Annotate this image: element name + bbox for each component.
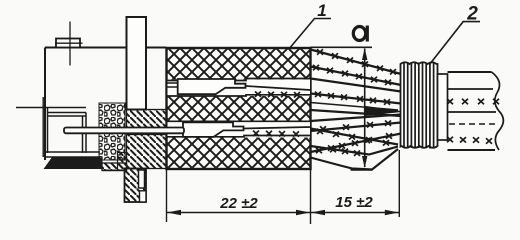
wire fan-out: upper marked line U4 <box>311 92 402 105</box>
insulator block 1 (crosshatched) <box>167 48 311 169</box>
svg-text:15 ±2: 15 ±2 <box>335 194 373 211</box>
x marks row 2 <box>447 137 453 142</box>
sagging bottom wire edge D5 <box>311 149 399 170</box>
tall stud column <box>127 17 147 110</box>
wire fan-out: upper channel top edge continuation U3 <box>311 79 402 92</box>
dimension line 22±2 <box>167 210 311 215</box>
collar right of wrap <box>438 74 448 140</box>
dimension a: extension line <box>311 46 373 48</box>
cable break wavy end <box>492 72 504 150</box>
label 2 leader <box>429 22 480 65</box>
flange foot <box>102 169 146 203</box>
label 1 leader <box>289 19 332 50</box>
dimension 22±2: extension lines <box>167 150 400 224</box>
lower crossing wire D4 <box>311 146 399 156</box>
body bottom wall (solid) <box>45 158 103 169</box>
svg-text:1: 1 <box>317 1 326 20</box>
lower contact channel <box>168 121 311 138</box>
dimension line 15±2 <box>311 210 400 215</box>
dimension a: vertical line with arrows <box>351 48 373 170</box>
dimension a: label a <box>353 26 367 42</box>
granular filler strip <box>99 103 125 160</box>
x marks row 1 <box>447 99 453 104</box>
x marks on lower channel bottom edge <box>253 131 299 137</box>
body bottom wall lines <box>45 152 100 157</box>
svg-text:2: 2 <box>466 4 478 25</box>
svg-text:22 ±2: 22 ±2 <box>219 195 258 212</box>
connector body outline <box>43 48 166 161</box>
cable going right <box>447 72 503 150</box>
lower contact <box>183 122 311 137</box>
wire fan-out: upper wire U2 <box>311 65 402 85</box>
center converging conductors <box>311 103 402 122</box>
top boss on body <box>55 22 83 66</box>
x marks on upper channel bottom edge <box>255 92 300 98</box>
upper contact channel <box>167 79 311 97</box>
upper contact <box>178 79 311 94</box>
wire fan-out: upper wire U1 <box>311 49 402 74</box>
lower crossing wire D3 <box>311 129 399 146</box>
hatched bushing above rod <box>127 110 167 128</box>
hatched step band <box>102 153 127 171</box>
hatched bushing below rod <box>127 135 167 169</box>
internal shelf lines <box>16 108 86 154</box>
center pin rod <box>64 128 184 134</box>
lower wire D2 <box>311 133 402 153</box>
binding wrap 2 (ribbed) <box>401 62 438 149</box>
lower wire D1 <box>311 121 402 132</box>
